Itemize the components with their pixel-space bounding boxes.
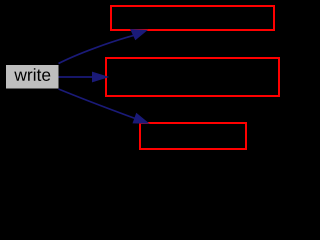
node: write (current function)	[6, 65, 59, 89]
edge: write -> bottom node	[59, 89, 149, 123]
edge: write -> top node	[59, 30, 147, 64]
node: bottom callee (truncated, red)	[140, 123, 246, 149]
edge: write -> middle node	[59, 72, 108, 81]
node: top callee (truncated, red)	[111, 6, 274, 30]
node: middle callee (truncated, red)	[106, 58, 279, 96]
